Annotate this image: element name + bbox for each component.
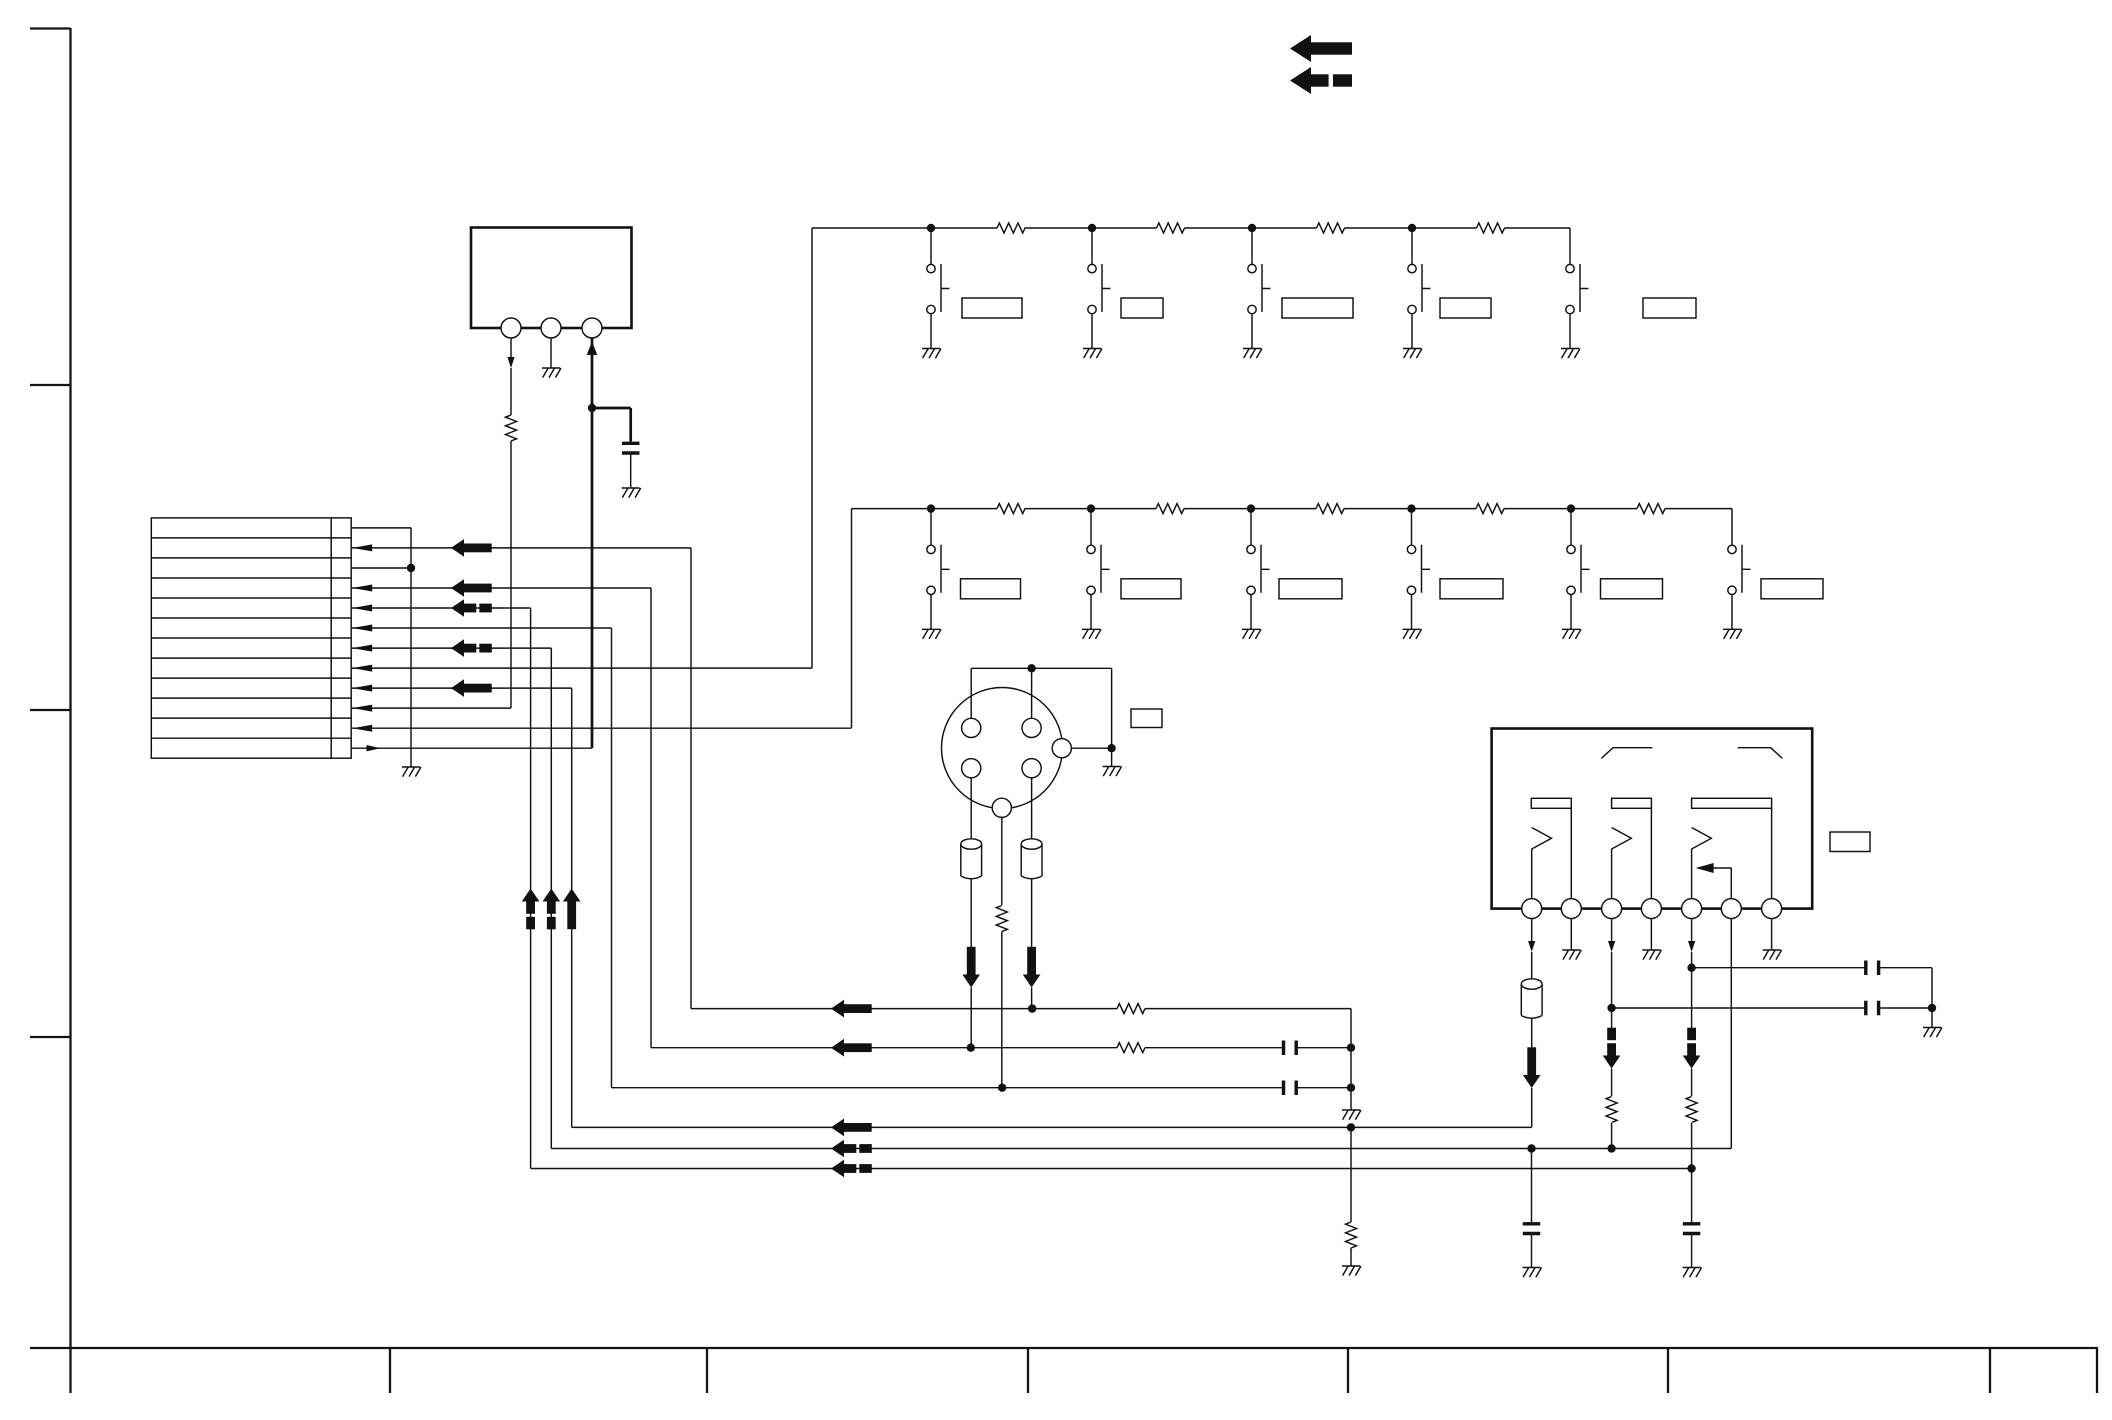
wire J2 pin1 down: [1531, 919, 1533, 941]
border tick bottom x707: [706, 1348, 708, 1393]
wire J2 pin4 down: [1650, 919, 1652, 950]
arrowhead into CN1 row5: [352, 605, 372, 612]
wire CN1 row12 out (bold net): [351, 747, 592, 749]
wire bar2 to pin4: [1650, 808, 1652, 898]
arrowhead out of CN1 row12: [367, 745, 381, 751]
resistor R14: [996, 906, 1007, 932]
ground (SW10): [1562, 629, 1581, 639]
resistor R12: [1117, 1043, 1145, 1053]
bold arrow (solid) on net B: [831, 1039, 844, 1057]
wire row7 riser to net E: [550, 648, 552, 1148]
wire FB1 down: [970, 878, 972, 951]
wire FB2 down: [1031, 878, 1033, 951]
label box for SW3: [1282, 298, 1353, 318]
border tick left y385: [30, 384, 71, 386]
wire J2 pin7 down: [1771, 919, 1773, 950]
wire CN1 row5: [351, 607, 530, 609]
wire row9 riser to net D: [571, 688, 573, 1127]
pushbutton switch SW4 (row1): [1411, 228, 1413, 264]
ground (SW2): [1083, 349, 1102, 359]
pushbutton switch SW3 (row1): [1251, 228, 1253, 264]
resistor R13: [1346, 1222, 1357, 1248]
capacitor C11: [1284, 1040, 1297, 1055]
wire J1 BL down: [970, 778, 972, 839]
node net A/C12: [1347, 1084, 1355, 1092]
node J1 shield junction: [1107, 744, 1115, 752]
wire R13 to ground: [1350, 1248, 1352, 1266]
wire bus1 down to CN1 row8: [811, 228, 813, 668]
border tick bottom x390: [389, 1348, 391, 1393]
ground (SW6): [922, 629, 941, 639]
arrowhead into CN1 row6: [352, 625, 372, 632]
ground (J1 shield): [1103, 767, 1122, 777]
label box for SW1: [962, 298, 1022, 318]
capacitor C1: [622, 443, 640, 453]
U1 pin 3: [582, 318, 602, 338]
DIN connector J1 outline: [942, 688, 1063, 809]
J2 contact bar 3: [1692, 798, 1772, 808]
border tick bottom x1348: [1347, 1348, 1349, 1393]
J2 pin 4: [1641, 899, 1661, 919]
CN1 row divider 4: [151, 597, 351, 599]
wire J1 shield right: [1071, 747, 1111, 749]
wire J2 pin5 down: [1691, 919, 1693, 941]
border frame left rule: [69, 28, 71, 1393]
arrowhead down on U1 pin1 wire: [507, 357, 514, 368]
label box for SW5: [1643, 298, 1696, 318]
resistor R15: [1686, 1097, 1697, 1123]
key-matrix bus 1 (top): [812, 228, 1570, 264]
bold arrow (dashed) on row7 wire: [451, 639, 464, 657]
label box for SW7: [1121, 579, 1181, 599]
bold arrow (solid) on row4 wire: [451, 579, 464, 597]
wire J1 TL up: [970, 668, 972, 718]
ground (C15,C16): [1923, 1028, 1942, 1038]
pushbutton switch SW11 (row2): [1728, 545, 1736, 553]
border tick bottom x1668: [1667, 1348, 1669, 1393]
J1 pin TL: [962, 718, 981, 737]
ferrite bead FB1: [961, 844, 982, 879]
bold arrow (solid, down) on FB1 wire: [962, 975, 980, 988]
pushbutton switch SW1 (row1): [930, 228, 932, 264]
wire net E to capacitor C13: [1531, 1149, 1533, 1223]
node on pin3 net: [588, 404, 596, 412]
ferrite bead FB3: [1521, 984, 1542, 1018]
arrowhead into CN1 row7: [352, 645, 372, 652]
resistor R8: [1316, 504, 1344, 514]
arrowhead into CN1 row8: [352, 665, 372, 672]
CN1 row divider 5: [151, 617, 351, 619]
bold arrow (dashed) on row5 wire: [451, 599, 464, 617]
resistor R1: [506, 415, 517, 441]
node net E / C13: [1527, 1144, 1535, 1152]
wire bar1 to pin2: [1570, 808, 1572, 898]
wire FB2 arrow to net A: [1031, 988, 1033, 1009]
wire FB3 down: [1531, 1018, 1533, 1048]
net A drop to ground: [1350, 1009, 1352, 1110]
label box for SW11: [1761, 579, 1823, 599]
node net C / R14: [998, 1084, 1006, 1092]
ground (SW11): [1723, 629, 1742, 639]
ground (J2 pin7): [1763, 950, 1782, 960]
arrowhead into CN1 row4: [352, 585, 372, 592]
arrowhead into CN1 row10: [352, 705, 372, 712]
bold arrow (dashed, down) on pin3 wire: [1603, 1056, 1621, 1069]
ground rail of rows 1,3: [410, 528, 412, 767]
node J1 top rail / TR: [1027, 664, 1035, 672]
wire J2 pin6 down to net E: [1730, 919, 1732, 1149]
ferrite bead FB2: [1021, 844, 1042, 879]
J1 pin right (shield): [1052, 739, 1071, 758]
pushbutton switch SW8 (row2): [1250, 509, 1252, 545]
wire R15 to net F: [1691, 1123, 1693, 1169]
ground (C13): [1523, 1268, 1542, 1278]
pushbutton switch SW2 (row1): [1091, 228, 1093, 264]
wire CN1 row3 to ground rail: [351, 567, 411, 569]
resistor R7: [1156, 504, 1184, 514]
bold arrow (solid) on net A: [831, 1000, 844, 1018]
wire J2 pin2 down: [1570, 919, 1572, 950]
node net E / R16: [1607, 1144, 1615, 1152]
border tick bottom x2097: [2096, 1348, 2098, 1393]
net C wire (row6 net): [612, 1087, 1352, 1089]
wire pin3 node to capacitor C16: [1612, 1007, 1932, 1009]
capacitor C12: [1284, 1080, 1297, 1095]
wire pin1 to bead FB3: [1531, 952, 1533, 979]
net B wire (row4 net): [651, 1047, 1351, 1049]
label box for SW4: [1440, 298, 1491, 318]
J2 spring contact 3: [1692, 828, 1712, 899]
J2 spring contact 1: [1532, 828, 1552, 899]
pushbutton switch SW5 (row1): [1566, 264, 1574, 272]
net E wire (row7 net): [551, 1148, 1731, 1150]
wire J1 bottom pin down: [1001, 817, 1003, 905]
wire CN1 row6: [351, 627, 611, 629]
J2 jack mark left: [1601, 748, 1652, 759]
wire CN1 row2: [351, 547, 691, 549]
bold arrow (solid, down) on pin1 wire: [1523, 1075, 1541, 1088]
signal-flow arrow (dashed, pointing left): [1290, 67, 1311, 94]
wire CN1 row10 to R1: [351, 707, 511, 709]
arrowhead down on pin5 wire: [1688, 941, 1695, 952]
CN1 row divider 1: [151, 537, 351, 539]
wire FB1 arrow to net B: [970, 988, 972, 1048]
bold arrow (solid, up) on row9 riser: [563, 889, 581, 902]
ground (SW7): [1082, 629, 1101, 639]
J2 jack mark right: [1738, 748, 1783, 759]
wire R1 down to CN1 row10: [510, 441, 512, 708]
wire bar3 to pin7: [1771, 808, 1773, 898]
connector CN1 body: [151, 518, 331, 758]
bold arrow (dashed, down) on pin5 wire: [1683, 1056, 1701, 1069]
pushbutton switch SW6 (row2): [930, 509, 932, 545]
capacitor C13: [1523, 1224, 1541, 1234]
node net F / pin5 net: [1687, 1164, 1695, 1172]
wire pin5 to node: [1691, 952, 1693, 1028]
resistor R9: [1476, 504, 1504, 514]
label box J2: [1830, 832, 1870, 852]
node net A / bead 2: [1028, 1004, 1036, 1012]
J1 top rail: [971, 667, 1111, 669]
resistor R10: [1637, 504, 1665, 514]
wire pin1 to resistor R1: [510, 368, 512, 415]
CN1 row divider 11: [151, 737, 351, 739]
pushbutton switch SW9 (row2): [1411, 509, 1413, 545]
J1 pin BR: [1022, 759, 1041, 778]
wire CN1 row1 to ground rail: [351, 527, 411, 529]
node net B / bead 1: [967, 1044, 975, 1052]
resistor R16: [1606, 1097, 1617, 1123]
bold arrow (solid) on row9 wire: [451, 679, 464, 697]
bold wire U1 pin3 from CN1 row12: [591, 338, 594, 748]
wire R16 to net E: [1611, 1123, 1613, 1149]
wire CN1 row8 to bus1: [351, 667, 812, 669]
arrowhead into CN1 row9: [352, 685, 372, 692]
capacitor C14: [1683, 1224, 1701, 1234]
wire row4 riser to net B: [650, 588, 652, 1048]
CN1 row divider 8: [151, 677, 351, 679]
J2 pin 3: [1602, 899, 1622, 919]
J1 pin BL: [962, 759, 981, 778]
arrowhead into CN1 row11: [352, 725, 372, 732]
arrowhead pin6 to pin5 contact: [1696, 863, 1714, 873]
signal-flow arrow (solid, pointing left): [1290, 35, 1311, 62]
net F wire (row5 net): [531, 1168, 1692, 1170]
J2 contact bar 2: [1612, 798, 1652, 808]
ground (SW9): [1403, 629, 1422, 639]
U1 pin 1: [501, 318, 521, 338]
border frame bottom rule: [30, 1347, 2098, 1349]
ground (SW5): [1561, 349, 1580, 359]
arrowhead into CN1 row2: [352, 544, 372, 551]
label box for SW10: [1601, 579, 1663, 599]
border tick bottom x1990: [1989, 1348, 1991, 1393]
node C15/C16 join: [1928, 1004, 1936, 1012]
CN1 row divider 2: [151, 557, 351, 559]
wire net F to capacitor C14: [1691, 1169, 1693, 1223]
bold arrow (dashed, up) on row7 riser: [543, 889, 561, 902]
ground (SW3): [1243, 349, 1262, 359]
node bus2 junction 5: [1567, 504, 1575, 512]
wire U1 pin2 down: [550, 338, 552, 368]
U1 pin 2: [541, 318, 561, 338]
ground (SW1): [922, 349, 941, 359]
node bus2 junction 4: [1407, 504, 1415, 512]
border tick top-left: [30, 27, 71, 29]
ground (J2 pin4): [1642, 950, 1661, 960]
resistor R5: [1477, 223, 1505, 233]
bold arrow (solid, down) on FB2 wire: [1023, 975, 1041, 988]
ground (J2 pin2): [1562, 950, 1581, 960]
resistor R2: [997, 223, 1025, 233]
wire arrow to net D: [1531, 1088, 1533, 1127]
J2 pin 2: [1561, 899, 1581, 919]
CN1 row divider 10: [151, 717, 351, 719]
jack block J2 outline: [1492, 729, 1813, 909]
node bus1 junction 3: [1248, 224, 1256, 232]
wire J2 pin3 down: [1611, 919, 1613, 941]
bold arrow (dashed, up) on row5 riser: [522, 889, 540, 902]
node bus2 junction 2: [1087, 504, 1095, 512]
CN1 row divider 9: [151, 697, 351, 699]
wire J1 BR down: [1031, 778, 1033, 839]
border tick bottom x1028: [1027, 1348, 1029, 1393]
J1 pin TR: [1022, 718, 1041, 737]
capacitor C15: [1866, 960, 1879, 975]
IC U1 (top box): [471, 228, 632, 329]
pushbutton switch SW7 (row2): [1090, 509, 1092, 545]
arrowhead down on pin3 wire: [1608, 941, 1615, 952]
resistor R4: [1317, 223, 1345, 233]
bold branch to capacitor C1: [592, 408, 631, 442]
node bus1 junction 1: [927, 224, 935, 232]
wire CN1 row4: [351, 587, 651, 589]
ground (U1 pin2): [542, 368, 561, 378]
J2 pin 5: [1682, 899, 1702, 919]
CN1 row divider 3: [151, 577, 351, 579]
wire arrow to resistor R16: [1611, 1069, 1613, 1097]
wire pin5 node to capacitor C15: [1692, 968, 1932, 1008]
J2 internal wire pin6: [1713, 868, 1731, 899]
wire J1 TR up: [1031, 668, 1033, 718]
ground (C14): [1683, 1268, 1702, 1278]
resistor R6: [997, 504, 1025, 514]
bold arrow (solid) on net D: [831, 1119, 844, 1137]
net D wire (row9 net): [572, 1126, 1532, 1128]
wire C14 to ground: [1691, 1235, 1693, 1268]
label box for SW9: [1440, 579, 1503, 599]
label box J1: [1131, 709, 1162, 728]
ground (SW4): [1403, 349, 1422, 359]
ground (net A): [1342, 1110, 1361, 1120]
bold arrow (solid) on row2 wire: [451, 539, 464, 557]
border tick left y710: [30, 709, 71, 711]
wire CN1 row11 to bus2: [351, 727, 851, 729]
J1 pin bottom: [992, 798, 1011, 817]
wire row5 riser to net F: [530, 608, 532, 1169]
wire net D to resistor R13: [1350, 1127, 1352, 1222]
wire pin3 to node: [1611, 952, 1613, 1028]
node bus1 junction 2: [1088, 224, 1096, 232]
node bus2 junction 3: [1247, 504, 1255, 512]
J2 contact bar 1: [1531, 798, 1571, 808]
connector CN1 pin column: [331, 518, 351, 758]
node bus1 junction 4: [1408, 224, 1416, 232]
wire bus2 down to CN1 row11: [851, 509, 853, 728]
pushbutton switch SW10 (row2): [1570, 509, 1572, 545]
bold arrow (dashed) on net F: [831, 1160, 844, 1178]
wire U1 pin1 down: [510, 338, 512, 358]
ground (CN1 rows1,3): [402, 767, 421, 777]
node net A/C11: [1347, 1044, 1355, 1052]
wire C13 to ground: [1531, 1235, 1533, 1268]
node pin5 / C15: [1687, 964, 1695, 972]
CN1 row divider 6: [151, 637, 351, 639]
node row3/ground rail: [407, 564, 415, 572]
wire row6 riser to net C: [611, 628, 613, 1088]
bold arrow (dashed) on net E: [831, 1140, 844, 1158]
wire arrow to resistor R15: [1691, 1069, 1693, 1097]
node net D / R13: [1347, 1123, 1355, 1131]
wire CN1 row7: [351, 647, 551, 649]
J2 spring contact 2: [1612, 828, 1632, 899]
label box for SW8: [1279, 579, 1342, 599]
ground (SW8): [1242, 629, 1261, 639]
node bus2 junction 1: [927, 504, 935, 512]
arrowhead up into U1 pin3: [587, 342, 598, 356]
wire R14 to net C: [1001, 932, 1003, 1088]
J2 pin 7: [1762, 899, 1782, 919]
label box for SW6: [961, 579, 1021, 599]
border tick left y1037: [30, 1036, 71, 1038]
wire row2 riser to net A: [690, 548, 692, 1009]
wire J1 shield rail down: [1111, 668, 1113, 766]
wire caps to ground: [1931, 1008, 1933, 1028]
node pin3 / C16: [1607, 1004, 1615, 1012]
ground (C1): [622, 488, 641, 498]
net A wire (row2 net): [691, 1008, 1351, 1010]
CN1 row divider 7: [151, 657, 351, 659]
wire C1 to ground: [630, 455, 632, 489]
key-matrix bus 2: [852, 509, 1733, 545]
capacitor C16: [1866, 1001, 1879, 1016]
ground (R13): [1342, 1266, 1361, 1276]
wire CN1 row9: [351, 687, 572, 689]
resistor R11: [1117, 1004, 1145, 1014]
J2 pin 6: [1721, 899, 1741, 919]
label box for SW2: [1121, 298, 1163, 318]
resistor R3: [1157, 223, 1185, 233]
arrowhead down on pin1 wire: [1528, 941, 1535, 952]
J2 pin 1: [1522, 899, 1542, 919]
